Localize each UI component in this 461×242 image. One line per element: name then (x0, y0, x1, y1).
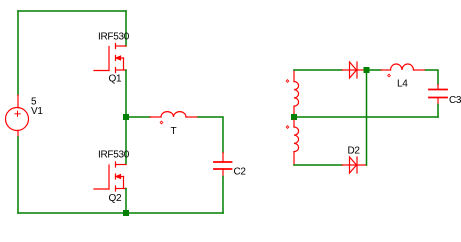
wire C2 to bottom rail (222, 177, 224, 214)
wire bottom rail (18, 212, 223, 214)
node junction Q2 source bottom rail (123, 210, 129, 216)
polarity dot secondary bottom (286, 126, 289, 129)
wire secondary top to diode (294, 69, 342, 71)
transistor Q2 (IRF530 MOSFET) (94, 162, 126, 191)
transformer secondary bottom winding (294, 120, 299, 165)
svg-text:IRF530: IRF530 (98, 150, 130, 161)
node junction diode cathodes (364, 67, 370, 73)
diode top rectifier (342, 62, 364, 78)
svg-text:V1: V1 (31, 106, 43, 117)
svg-text:L4: L4 (397, 79, 408, 90)
wire C3 to return rail (437, 105, 439, 118)
svg-text:Q1: Q1 (109, 74, 122, 85)
svg-text:IRF530: IRF530 (98, 32, 130, 43)
wire node to transformer primary (129, 116, 150, 118)
wire D2 cathode up to node (366, 73, 368, 165)
wire Q1 drain to top rail (125, 11, 127, 46)
transformer primary winding T (150, 112, 198, 117)
svg-text:C2: C2 (234, 167, 247, 178)
svg-text:T: T (171, 126, 177, 137)
wire center tap return (297, 116, 438, 118)
transistor Q1 (IRF530 MOSFET) (94, 44, 126, 73)
wire Q1 source down to node (125, 70, 127, 114)
wire top rail left circuit (18, 10, 126, 12)
wire node to Q2 drain (125, 120, 127, 164)
node junction half-bridge midpoint (123, 114, 129, 120)
wire secondary bottom to diode D2 (294, 164, 342, 166)
wire primary to C2 corner (198, 117, 223, 153)
svg-text:D2: D2 (348, 146, 361, 157)
node junction center tap (291, 114, 297, 120)
voltage source V1 (6, 95, 29, 137)
svg-text:C3: C3 (449, 95, 461, 106)
svg-text:Q2: Q2 (109, 193, 122, 204)
polarity dot L4 (388, 74, 391, 77)
wire L4 to C3 corner (426, 70, 439, 85)
diode D2 (342, 157, 367, 173)
capacitor C3 (429, 85, 447, 105)
capacitor C2 (214, 153, 232, 177)
polarity dot secondary top (286, 80, 289, 83)
wire node to L4 (370, 69, 382, 71)
wire Q2 source to bottom rail (125, 189, 127, 211)
transformer secondary top winding (294, 70, 299, 114)
inductor L4 (381, 64, 426, 70)
polarity dot transformer primary (160, 121, 163, 124)
wire left rail upper (17, 11, 19, 95)
wire left rail lower (17, 137, 19, 213)
